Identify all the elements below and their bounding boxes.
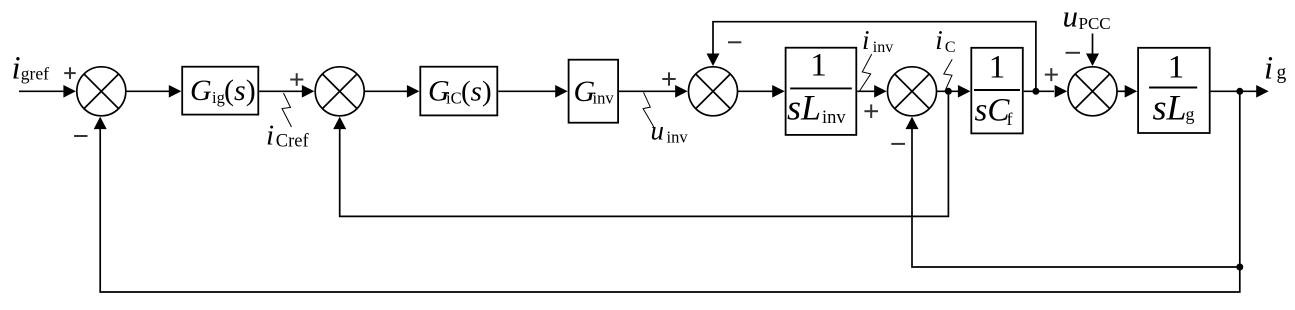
input label u_PCC bbox=[1063, 0, 1111, 34]
node label i_C bbox=[935, 25, 955, 56]
svg-text:1: 1 bbox=[810, 48, 827, 84]
wire: S1 to block G_ig bbox=[126, 85, 182, 98]
node label i_Cref bbox=[266, 119, 310, 151]
svg-text:inv: inv bbox=[873, 39, 893, 56]
svg-text:u: u bbox=[1063, 0, 1079, 34]
minus sign at S4 bottom input bbox=[891, 143, 905, 145]
svg-text:(s): (s) bbox=[224, 74, 256, 107]
block G_iC(s) bbox=[420, 67, 497, 116]
wire: G_ig to S2 bbox=[259, 85, 314, 98]
block G_ig(s) bbox=[182, 67, 258, 115]
wire: S4 to node D1 and into block 1/sCf bbox=[937, 85, 971, 98]
block G_inv bbox=[569, 60, 619, 123]
wire: S2 to block G_iC bbox=[364, 85, 419, 98]
plus sign at S5 left input bbox=[1045, 68, 1058, 81]
svg-text:iC: iC bbox=[446, 88, 462, 107]
wire: S3 to block 1/sLinv bbox=[738, 85, 785, 98]
svg-text:inv: inv bbox=[822, 108, 846, 128]
node label u_inv bbox=[651, 116, 689, 147]
svg-text:i: i bbox=[1264, 51, 1273, 87]
svg-text:gref: gref bbox=[21, 63, 49, 83]
svg-text:sL: sL bbox=[1153, 88, 1187, 128]
summing junction S2 bbox=[315, 67, 364, 116]
node D1 (i_C pickoff) bbox=[945, 88, 952, 95]
minus sign at S3 top input bbox=[728, 41, 741, 43]
wire: 1/sLg to output node D3 and out bbox=[1211, 85, 1269, 98]
svg-text:f: f bbox=[1007, 109, 1013, 129]
block 1/(sC_f) bbox=[971, 48, 1023, 134]
svg-text:1: 1 bbox=[1168, 50, 1185, 86]
wire: 1/sLinv to S4 bbox=[857, 85, 886, 98]
svg-text:sC: sC bbox=[975, 93, 1011, 129]
block 1/(sL_g) bbox=[1138, 48, 1210, 133]
output label i_g bbox=[1264, 51, 1287, 87]
svg-text:sL: sL bbox=[787, 88, 821, 128]
break/zigzag symbol on u_inv wire bbox=[643, 92, 654, 127]
svg-text:inv: inv bbox=[667, 128, 689, 147]
minus sign at S5 top input bbox=[1066, 52, 1080, 54]
summing junction S5 bbox=[1068, 67, 1117, 116]
wire: input into summing junction S1 bbox=[19, 85, 76, 98]
svg-text:G: G bbox=[190, 74, 212, 107]
wire: i_g feedback from D3 down to junction D4 then up into S4 bottom bbox=[906, 91, 1240, 267]
svg-text:i: i bbox=[266, 119, 274, 151]
plus sign at S2 left input bbox=[290, 73, 303, 86]
svg-text:g: g bbox=[1186, 104, 1195, 124]
summing junction S1 bbox=[77, 67, 126, 116]
plus sign at S3 left input bbox=[662, 72, 675, 85]
wire: i_g feedback from D4 down and left to S1 bottom bbox=[94, 117, 1240, 292]
summing junction S4 bbox=[888, 67, 937, 116]
input label i_gref bbox=[12, 50, 50, 86]
junction D4 on i_g feedback bbox=[1236, 264, 1243, 271]
svg-text:u: u bbox=[651, 116, 665, 146]
plus sign at S4 left input bbox=[864, 104, 878, 118]
svg-text:(s): (s) bbox=[461, 75, 492, 107]
svg-text:inv: inv bbox=[593, 88, 615, 107]
break/zigzag symbol on i_inv wire bbox=[859, 54, 872, 91]
svg-text:i: i bbox=[862, 25, 870, 55]
wire: S5 to block 1/sLg bbox=[1117, 85, 1137, 98]
minus sign at S1 bottom input bbox=[74, 135, 87, 137]
svg-text:i: i bbox=[935, 25, 943, 55]
break/zigzag symbol on i_C wire bbox=[944, 59, 952, 91]
break/zigzag symbol on i_Cref wire bbox=[282, 93, 292, 127]
svg-text:1: 1 bbox=[989, 50, 1006, 86]
svg-text:C: C bbox=[945, 39, 956, 56]
block 1/(sL_inv) bbox=[786, 48, 857, 135]
svg-text:i: i bbox=[12, 50, 21, 86]
node D2 (u_C pickoff) bbox=[1032, 88, 1039, 95]
wire: feedback from node D2 up and over to S3 top bbox=[707, 22, 1036, 92]
svg-text:g: g bbox=[1277, 62, 1287, 83]
wire: i_C feedback from D1 down and left to S2 bottom bbox=[333, 91, 948, 216]
summing junction S3 bbox=[689, 67, 738, 116]
wire: G_iC to block G_inv bbox=[498, 85, 568, 98]
svg-text:PCC: PCC bbox=[1079, 14, 1111, 33]
wire: 1/sCf to node D2 and into S5 bbox=[1024, 85, 1067, 98]
node label i_inv bbox=[862, 25, 893, 56]
svg-text:Cref: Cref bbox=[276, 132, 310, 152]
node D3 (i_g pickoff) bbox=[1236, 88, 1243, 95]
plus sign at S1 left input bbox=[64, 67, 76, 79]
wire: G_inv to S3 bbox=[619, 85, 688, 98]
svg-text:ig: ig bbox=[212, 88, 225, 107]
wire: u_PCC down into S5 bbox=[1086, 34, 1099, 66]
